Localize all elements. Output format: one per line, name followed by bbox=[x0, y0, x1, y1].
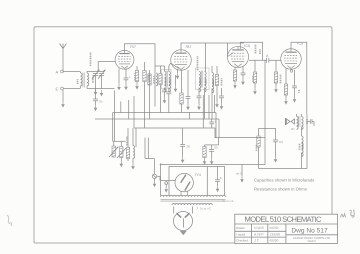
horizontal AVC/B+ bus lines bbox=[95, 91, 265, 142]
on/off switch bbox=[152, 159, 156, 188]
B+ bus bottom bbox=[161, 122, 307, 169]
tuning capacitor C1a bbox=[92, 70, 99, 79]
svg-text:A.W.P: A.W.P bbox=[253, 233, 264, 237]
svg-text:13/6/50: 13/6/50 bbox=[270, 232, 281, 236]
volume control wire top bbox=[113, 140, 126, 142]
svg-text:Traced: Traced bbox=[236, 232, 246, 236]
bus L1 bbox=[113, 112, 216, 114]
V2 cathode components bbox=[176, 69, 191, 113]
svg-text:E: E bbox=[56, 87, 59, 92]
electrolytic filter cap 8.0 bbox=[273, 128, 283, 163]
tone control (variable, arrow) bbox=[117, 141, 126, 167]
dial lamp bbox=[174, 212, 193, 231]
svg-text:7Y4: 7Y4 bbox=[195, 173, 201, 177]
tube V5 7Y4 rectifier bbox=[175, 173, 201, 195]
V4 cathode bias bbox=[284, 69, 299, 105]
svg-text:Checked: Checked bbox=[236, 238, 248, 242]
plate wire box V2 bbox=[181, 43, 206, 66]
riser to gang top bbox=[97, 62, 99, 72]
power transformer core bbox=[161, 200, 226, 202]
filter capacitor inside box bbox=[215, 167, 222, 193]
IFT2 second windings bbox=[212, 66, 224, 119]
field coil bbox=[300, 127, 304, 169]
svg-text:7S7: 7S7 bbox=[130, 45, 136, 49]
dial lamp leads bbox=[174, 207, 193, 214]
svg-text:.1: .1 bbox=[128, 75, 131, 79]
heater drop wires bbox=[136, 128, 155, 159]
drops from V2 stage bbox=[149, 107, 151, 120]
svg-text:8C: 8C bbox=[291, 127, 295, 131]
earth wire down bbox=[62, 90, 64, 101]
antenna coil T1 primary bbox=[78, 72, 83, 89]
output transformer bbox=[297, 114, 308, 129]
IFT1 grid wire to V2 bbox=[171, 63, 180, 68]
IF transformer IFT1 bbox=[155, 66, 171, 92]
padder capacitor .05 bbox=[93, 99, 103, 111]
svg-text:8.0: 8.0 bbox=[279, 140, 284, 144]
speaker bbox=[286, 118, 295, 131]
IFT2 secondary to detector bbox=[227, 43, 229, 57]
mains ground arrow bbox=[180, 231, 187, 235]
audio line down bbox=[264, 60, 266, 164]
svg-text:.05: .05 bbox=[214, 146, 219, 150]
svg-text:6/6/50: 6/6/50 bbox=[270, 239, 279, 243]
wire A to antenna coil bbox=[63, 71, 80, 73]
V4 plate wire to output transformer bbox=[291, 42, 307, 114]
tube V4 7C5 output bbox=[281, 42, 303, 70]
V1 osc grid resistor bbox=[135, 66, 139, 90]
bracket bbox=[197, 207, 199, 210]
wire to transformer primary bbox=[160, 164, 162, 196]
volume control R (variable, arrow) bbox=[109, 141, 118, 157]
title block bbox=[235, 214, 338, 243]
tube V3 7C6 detector bbox=[227, 44, 250, 68]
resistor in pot cluster bbox=[126, 128, 129, 161]
bleeder resistor bbox=[257, 129, 261, 169]
bus L3 bbox=[134, 128, 265, 138]
switch second contact bbox=[157, 176, 175, 192]
V2 screen bypass cap bbox=[197, 88, 202, 111]
inner wire of box bbox=[206, 167, 208, 196]
resistor on osc line bbox=[148, 74, 151, 85]
B+ tap arrow bbox=[236, 165, 244, 183]
pencil note right bbox=[341, 210, 355, 218]
power transformer secondary winding bbox=[172, 203, 212, 205]
pencil note bottom left bbox=[7, 215, 12, 226]
label Pri on 465KC bbox=[90, 53, 92, 67]
V1 cathode lead bbox=[118, 69, 120, 84]
ground V1 cathode bbox=[117, 84, 121, 91]
V3 grid diagonal bbox=[228, 53, 234, 57]
rectifier box bbox=[169, 167, 225, 196]
resistor left of A bbox=[253, 60, 257, 94]
antenna bbox=[60, 44, 67, 72]
long line osc section bbox=[149, 70, 151, 107]
series capacitor on bus bbox=[209, 119, 216, 128]
tube V2 7B7 IF amplifier bbox=[171, 45, 192, 70]
tone winding bbox=[131, 128, 135, 170]
wire top bus to det bbox=[206, 42, 245, 44]
table row labels bbox=[236, 226, 248, 243]
dates bbox=[270, 226, 281, 243]
signatures bbox=[253, 226, 264, 243]
V1 bypass capacitor bbox=[124, 70, 131, 84]
svg-text:6/6/50: 6/6/50 bbox=[270, 226, 279, 230]
tuning capacitor C1b (osc) bbox=[98, 70, 105, 79]
label near V3 bbox=[255, 45, 257, 54]
tone capacitor across primary bbox=[307, 114, 314, 126]
svg-text:Resistances shown in Ohms: Resistances shown in Ohms bbox=[254, 187, 307, 192]
svg-text:.05: .05 bbox=[99, 100, 104, 104]
svg-text:3v at VC: 3v at VC bbox=[200, 207, 211, 211]
svg-text:Drawn: Drawn bbox=[236, 226, 245, 230]
tube V1 7S7 converter bbox=[115, 45, 136, 69]
wire E to coil bottom bbox=[63, 88, 80, 90]
vertical drops from V1 stage bbox=[114, 91, 116, 142]
svg-text:H.W.B: H.W.B bbox=[254, 226, 264, 230]
osc coil on line bbox=[154, 73, 158, 86]
terminal A bbox=[56, 70, 81, 75]
svg-text:an 2: an 2 bbox=[236, 172, 242, 176]
IF transformer IFT2 bbox=[196, 56, 210, 119]
coupling capacitor bbox=[267, 58, 269, 63]
bus L2 bbox=[95, 118, 219, 120]
gang top bus bbox=[87, 70, 105, 72]
output grid resistor 470k bbox=[274, 60, 280, 92]
plate wire box V1 bbox=[125, 44, 156, 107]
svg-text:7B7: 7B7 bbox=[185, 45, 191, 49]
svg-text:.1: .1 bbox=[214, 120, 217, 124]
svg-text:Dwg No 517: Dwg No 517 bbox=[291, 227, 328, 234]
antenna coil T1 core bbox=[83, 73, 84, 88]
ground (earth terminal) bbox=[61, 101, 65, 108]
drops from V3 bbox=[215, 113, 217, 138]
wires caps to ground bus bbox=[87, 76, 115, 100]
IFT1 bottom caps bbox=[162, 88, 171, 113]
svg-text:J.T.: J.T. bbox=[253, 239, 260, 243]
junction dot bbox=[160, 164, 162, 166]
V1 screen resistor bbox=[143, 62, 149, 128]
svg-text:Capacities shown in Microfarad: Capacities shown in Microfarads bbox=[254, 178, 314, 183]
V3 plate box bbox=[240, 42, 262, 60]
det stage lower components bbox=[203, 138, 219, 165]
coupling node A wire bbox=[249, 54, 282, 61]
svg-text:7C6: 7C6 bbox=[244, 44, 251, 48]
IFT1 ground bbox=[174, 75, 178, 92]
resistor IFT1 left bbox=[159, 66, 162, 95]
svg-text:Rs No 58: Rs No 58 bbox=[223, 200, 234, 203]
antenna coil T1 secondary bbox=[87, 71, 93, 88]
wire grid line to V1 bbox=[98, 61, 115, 63]
svg-text:WAIHI: WAIHI bbox=[308, 239, 316, 243]
svg-text:A: A bbox=[56, 70, 59, 75]
terminal E bbox=[56, 87, 81, 92]
heater bypass capacitor bbox=[180, 128, 190, 163]
ground under tuning gang bbox=[100, 90, 104, 97]
V3 under components: diode load bbox=[233, 66, 245, 88]
svg-text:.05: .05 bbox=[186, 145, 191, 149]
wire top of filter section bbox=[259, 128, 276, 130]
power transformer primary winding row bbox=[161, 195, 226, 197]
svg-text:MODEL 510 SCHEMATIC: MODEL 510 SCHEMATIC bbox=[244, 215, 322, 224]
